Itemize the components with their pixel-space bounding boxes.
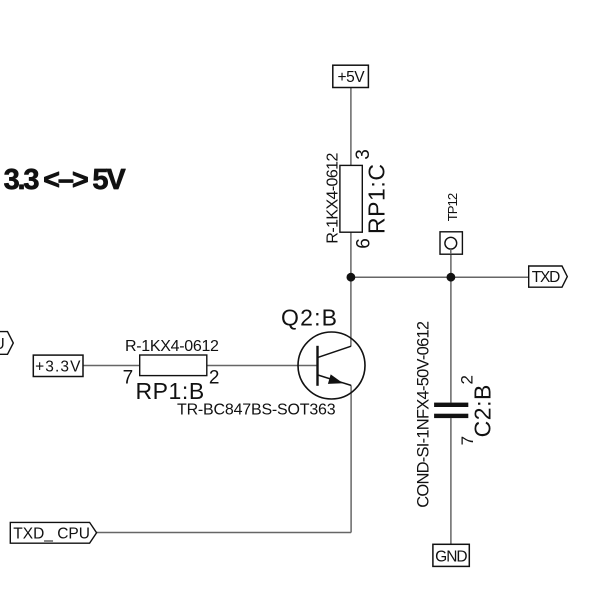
svg-text:+5V: +5V [338, 69, 366, 86]
svg-text:TXD_ CPU: TXD_ CPU [13, 526, 90, 543]
svg-text:U: U [0, 336, 5, 353]
svg-text:2: 2 [457, 375, 476, 384]
svg-text:C2:B: C2:B [470, 384, 496, 437]
svg-text:RP1:B: RP1:B [136, 378, 205, 404]
svg-text:3: 3 [353, 149, 374, 160]
svg-text:R-1KX4-0612: R-1KX4-0612 [324, 153, 341, 244]
svg-text:TP12: TP12 [445, 193, 460, 221]
svg-text:3.3 <–> 5V: 3.3 <–> 5V [4, 164, 127, 196]
svg-text:Q2:B: Q2:B [281, 304, 338, 330]
svg-text:7: 7 [458, 436, 477, 445]
svg-text:R-1KX4-0612: R-1KX4-0612 [125, 338, 219, 355]
svg-text:7: 7 [123, 367, 134, 388]
svg-text:COND-SI-1NFX4-50V-0612: COND-SI-1NFX4-50V-0612 [414, 321, 432, 508]
svg-text:6: 6 [353, 238, 374, 249]
svg-text:GND: GND [435, 549, 467, 566]
svg-text:RP1:C: RP1:C [364, 164, 390, 235]
svg-text:+3.3V: +3.3V [35, 359, 81, 376]
svg-text:2: 2 [209, 367, 220, 388]
svg-text:TXD: TXD [532, 269, 560, 286]
svg-text:TR-BC847BS-SOT363: TR-BC847BS-SOT363 [177, 402, 336, 419]
